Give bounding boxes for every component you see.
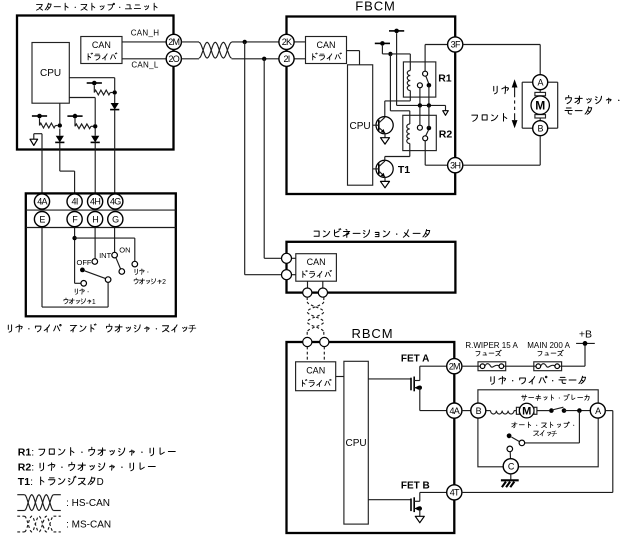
svg-text:B: B <box>476 406 482 416</box>
node C junction <box>58 123 62 127</box>
CPU (start-stop unit) <box>32 43 69 104</box>
wire CAN_L drop to meter <box>263 59 265 258</box>
node CAN_H junction <box>243 40 247 44</box>
wire CAN_H 2M to twist <box>181 41 199 43</box>
wire junction to R1 coil <box>390 53 410 55</box>
combination meter label コンビネーション・メータ <box>314 229 430 238</box>
node B junction <box>93 124 97 128</box>
connector 4A (RBCM) <box>447 403 462 418</box>
OFF contact <box>92 259 98 265</box>
svg-text:CAN_L: CAN_L <box>131 60 159 69</box>
washer motor M <box>531 96 549 114</box>
connector G <box>108 212 123 227</box>
svg-text:2I: 2I <box>283 54 289 64</box>
svg-text:チ: チ <box>188 324 197 334</box>
power symbol 1 (pull-up A) <box>87 81 102 93</box>
wire breaker to node <box>564 410 590 412</box>
svg-text:CAN: CAN <box>92 40 111 50</box>
svg-text:4T: 4T <box>450 488 460 498</box>
direction arrow リヤ/フロント <box>512 79 518 128</box>
CAN driver (meter) <box>296 254 337 282</box>
wiper motor M <box>519 403 534 418</box>
wire 3F to R1 common <box>425 44 448 46</box>
start-stop unit label スタート・ストップ・ユニット <box>37 3 158 10</box>
wire fuse1 to fuse2 <box>506 365 534 367</box>
resistor C <box>40 123 56 128</box>
wires R1 contacts to bus <box>419 88 421 106</box>
svg-text:MAIN 200 A: MAIN 200 A <box>527 341 570 350</box>
wire CAN driver to 2M (CAN_H) <box>122 41 166 43</box>
svg-text:4G: 4G <box>110 197 121 207</box>
label ウオッシャ・モータ <box>565 95 619 114</box>
svg-text:4A: 4A <box>37 197 47 207</box>
RBCM pin top right <box>320 337 329 346</box>
wire R2 common to 3H <box>424 141 426 165</box>
label リヤ・ウオッシャ1 <box>64 289 96 306</box>
svg-text:INT: INT <box>99 251 112 260</box>
svg-text:2M: 2M <box>449 361 460 371</box>
FBCM box <box>287 17 456 195</box>
terminal B (washer) <box>533 121 548 136</box>
label サーキット・ブレーカ <box>522 394 590 400</box>
svg-text:4I: 4I <box>72 197 78 207</box>
auto-stop pivot <box>507 433 512 438</box>
wires R2 contacts to bus <box>419 105 421 125</box>
label フロント <box>472 114 507 122</box>
svg-text:FET A: FET A <box>401 354 430 365</box>
bus wire with arrow <box>397 104 446 106</box>
svg-text:A: A <box>595 406 601 416</box>
svg-text:3H: 3H <box>450 160 460 170</box>
INT contact <box>112 252 118 258</box>
connector 3H <box>448 158 463 173</box>
wire junction down to R2 coil <box>389 54 391 111</box>
node bus junction left <box>418 103 422 107</box>
twisted pair HS-CAN <box>199 42 232 58</box>
wire twist to 2I <box>232 58 280 60</box>
auto-stop contact lower <box>507 446 513 452</box>
R1 contact NO (filled) <box>427 83 432 88</box>
wire fuse2 to +B <box>562 365 585 367</box>
diode DC <box>56 136 64 143</box>
switch unit box <box>26 193 176 316</box>
diode DA <box>111 103 119 110</box>
svg-text:R1: R1 <box>438 73 452 85</box>
wire CPU to Q1 base <box>373 124 379 126</box>
svg-text:M: M <box>535 99 545 113</box>
CPU (RBCM) <box>344 361 368 524</box>
wire washer B to 3H <box>539 136 541 166</box>
wire FET B drain to 4T <box>420 491 447 493</box>
relay R2 box <box>403 115 437 150</box>
R1 coil <box>407 71 410 91</box>
wire meter pin upper to CAN driver <box>292 257 296 259</box>
ground (FET B) <box>419 511 421 517</box>
legend HS-CAN symbol <box>17 495 61 511</box>
svg-text:A: A <box>538 77 544 87</box>
svg-text:B: B <box>538 123 544 133</box>
connector 4I (switch) <box>67 194 82 209</box>
wire junction down to auto-stop <box>578 411 580 443</box>
wire meter pin lower to CAN driver <box>292 274 296 276</box>
connector 4G (switch) <box>108 194 123 209</box>
connector 2M (start-stop) <box>166 34 181 49</box>
terminal A (washer) <box>533 75 548 90</box>
svg-text:2O: 2O <box>168 54 179 64</box>
wire 3F to washer motor A <box>463 44 541 46</box>
wire H to OFF contact <box>94 227 96 259</box>
wire F junction to washer2 contact <box>75 237 135 239</box>
svg-text:H: H <box>92 214 98 224</box>
svg-text:E: E <box>39 214 45 224</box>
arrow out (bus) <box>443 111 449 116</box>
power symbol 2 (pull-up B) <box>67 114 82 127</box>
connector 4T (RBCM) <box>447 485 462 500</box>
svg-text:CAN: CAN <box>306 366 325 376</box>
wire CPU to node A <box>69 77 114 79</box>
svg-text:FBCM: FBCM <box>355 0 395 14</box>
wire node C to diode to 4I <box>59 129 61 136</box>
svg-text:CPU: CPU <box>40 68 61 79</box>
wire node B to diode to 4H <box>94 129 96 136</box>
label リヤ・ウオッシャ2 <box>134 269 166 286</box>
legend R2 <box>18 462 155 474</box>
wiper motor brush left <box>516 407 519 414</box>
resistor A <box>94 90 110 95</box>
svg-text:CPU: CPU <box>346 438 367 449</box>
ground (Q1) <box>384 133 386 138</box>
washer motor brush bottom <box>535 115 546 118</box>
ON lever end contact <box>119 269 125 275</box>
meter pin lower <box>282 270 292 280</box>
power symbol coils (FBCM) <box>375 41 390 54</box>
connector 4A (switch) <box>34 194 49 209</box>
node F junction <box>72 236 76 240</box>
wire FET A drain to 2M <box>420 365 447 367</box>
wire CAN driver to 2O (CAN_L) <box>122 58 166 60</box>
svg-text:D: D <box>97 477 104 488</box>
resistor B <box>75 124 91 129</box>
wire CAN driver to CPU (RBCM) <box>336 376 344 378</box>
transistor Q1 <box>376 117 393 134</box>
svg-text:2: 2 <box>162 279 166 286</box>
svg-text:1: 1 <box>92 299 96 306</box>
wire B to coil <box>486 410 491 412</box>
dashed wires pins to CAN driver (RBCM) <box>306 347 308 362</box>
R1 lever <box>426 76 429 83</box>
wire 2I to CAN driver <box>294 58 306 60</box>
terminal B (wiper) <box>471 403 486 418</box>
RBCM box <box>287 342 455 533</box>
legend T1 <box>18 476 104 488</box>
combination meter box <box>287 242 456 293</box>
CPU (FBCM) <box>348 65 373 185</box>
wire CAN_L 2O to twist <box>181 58 199 60</box>
wire R2 coil to T1 collector <box>409 144 411 157</box>
wire CPU to T1 base <box>373 168 379 170</box>
wire R1 coil to Q1 collector <box>409 91 411 101</box>
connector row divider 1 <box>26 209 176 211</box>
legend MS-CAN symbol <box>17 516 61 532</box>
twisted pair MS-CAN (meter to RBCM) <box>306 297 308 302</box>
rear wiper motor box <box>478 390 598 467</box>
INT/ON lever <box>116 258 121 269</box>
legend R1 <box>18 447 175 459</box>
wire node A to diode to 4G <box>114 95 116 103</box>
connector H <box>88 212 103 227</box>
power symbol bus (FBCM) <box>389 29 404 106</box>
wiper switch pivot <box>80 268 85 273</box>
svg-text:ON: ON <box>119 245 130 254</box>
node bus junction right <box>427 103 431 107</box>
svg-text:2M: 2M <box>168 37 179 47</box>
node A junction <box>113 90 117 94</box>
wire CAN driver to CPU (FBCM) <box>347 50 360 52</box>
CAN driver (start-stop unit) <box>81 37 122 64</box>
wire coil to brush <box>514 410 516 412</box>
meter pin bottom left <box>303 288 312 297</box>
svg-text:R2: R2 <box>439 129 453 141</box>
R2 lever <box>426 130 429 136</box>
wire 2M to fuse1 <box>462 365 478 367</box>
svg-text:CAN: CAN <box>316 40 335 50</box>
washer1 right contact <box>105 277 111 283</box>
R2 contact NC <box>417 125 422 130</box>
wire CAN_H drop to meter <box>244 42 246 275</box>
wire G to INT contact <box>114 227 116 253</box>
connector 2K <box>279 34 294 49</box>
meter pin upper <box>282 253 292 263</box>
wire 4A to B <box>462 410 471 412</box>
wire 2K to CAN driver <box>294 41 306 43</box>
washer1 left contact <box>81 281 87 287</box>
switch unit label リヤ・ワイパ アンド ウオッシャ・スイッチ <box>8 324 197 334</box>
connector F <box>67 212 82 227</box>
label R.WIPER 15 A fuse <box>465 341 518 356</box>
connector row divider 2 <box>26 227 176 229</box>
wire E to washer1 <box>41 227 43 308</box>
wire brush to breaker <box>537 410 549 412</box>
svg-text:2K: 2K <box>282 37 292 47</box>
FET A <box>368 378 411 380</box>
wire 4T to A <box>462 491 613 493</box>
label リヤ (washer) <box>494 86 509 94</box>
wire F down with junction <box>74 227 76 284</box>
svg-text:3F: 3F <box>451 40 461 50</box>
ground (start-stop unit) <box>30 134 42 194</box>
power symbol 3 (pull-up C) <box>32 114 47 126</box>
fuse MAIN 200A <box>534 362 562 371</box>
svg-text:T1:: T1: <box>18 476 33 488</box>
svg-text:T1: T1 <box>398 164 410 176</box>
svg-text:RBCM: RBCM <box>352 326 394 341</box>
CAN driver (FBCM) <box>306 37 347 64</box>
transistor T1 <box>376 160 393 177</box>
start-stop unit box <box>17 16 174 150</box>
washer motor brush top <box>539 90 541 93</box>
svg-text:CAN_H: CAN_H <box>131 28 160 37</box>
label リヤ・ワイパ・モータ <box>491 376 586 384</box>
connector E <box>34 212 49 227</box>
FET B <box>368 499 411 501</box>
label オート・ストップ・スイッチ <box>512 422 575 438</box>
svg-text:CPU: CPU <box>350 121 371 132</box>
connector 2I <box>279 51 294 66</box>
circuit breaker <box>549 407 566 413</box>
svg-text:4H: 4H <box>90 197 100 207</box>
wiper switch lever <box>85 271 106 279</box>
fuse R.WIPER 15A <box>478 362 506 371</box>
wire twist to 2K <box>232 41 280 43</box>
wire CPU bottom to node C <box>59 103 61 123</box>
ground (T1) <box>384 177 386 182</box>
node coil feed junction <box>388 52 392 56</box>
R1 contact NC <box>417 83 422 88</box>
wiper motor brush right <box>534 407 537 414</box>
node auto-stop junction <box>577 408 582 413</box>
svg-text:CAN: CAN <box>307 257 326 267</box>
wire CPU to node B <box>69 97 95 99</box>
node CAN_L junction <box>262 57 266 61</box>
connector 2O (start-stop) <box>166 51 181 66</box>
washer2 contact <box>132 261 138 267</box>
auto-stop contact right <box>519 440 525 446</box>
R1 contact common <box>423 71 428 76</box>
svg-text:4A: 4A <box>449 406 459 416</box>
washer motor bracket <box>522 82 558 128</box>
svg-text:: MS-CAN: : MS-CAN <box>66 520 111 531</box>
svg-text:FET B: FET B <box>401 481 430 492</box>
chassis ground (C) <box>501 474 519 487</box>
svg-text:R.WIPER 15 A: R.WIPER 15 A <box>465 341 518 350</box>
wire contact to C <box>509 452 511 459</box>
svg-text:G: G <box>112 214 119 224</box>
svg-text:OFF: OFF <box>77 258 92 267</box>
wiper motor coil <box>491 411 515 414</box>
svg-text:R1:: R1: <box>18 447 34 459</box>
svg-text:+B: +B <box>579 328 592 340</box>
meter pin bottom right <box>318 288 327 297</box>
svg-text:チ: チ <box>551 430 558 438</box>
label MAIN 200 A fuse <box>527 341 570 356</box>
terminal C <box>503 459 518 474</box>
svg-text:: HS-CAN: : HS-CAN <box>66 498 110 509</box>
connector 4H (switch) <box>88 194 103 209</box>
CAN driver (RBCM) <box>296 362 336 391</box>
wire FET A source to 4A <box>420 410 447 412</box>
relay R1 box <box>403 62 435 97</box>
R2 contact NO (filled) <box>427 126 432 131</box>
RBCM pin top left <box>303 337 312 346</box>
R2 coil <box>407 124 410 144</box>
wires CAN driver to bottom pins <box>307 281 309 287</box>
svg-text:M: M <box>522 406 531 418</box>
terminal A (wiper) <box>590 403 605 418</box>
connector 3F <box>448 37 463 52</box>
+B terminal <box>576 341 595 346</box>
connector 2M (RBCM) <box>447 359 462 374</box>
svg-text:R2:: R2: <box>18 462 34 474</box>
auto-stop lever <box>511 437 519 442</box>
diode DB <box>91 136 99 143</box>
R2 contact common <box>423 136 428 141</box>
